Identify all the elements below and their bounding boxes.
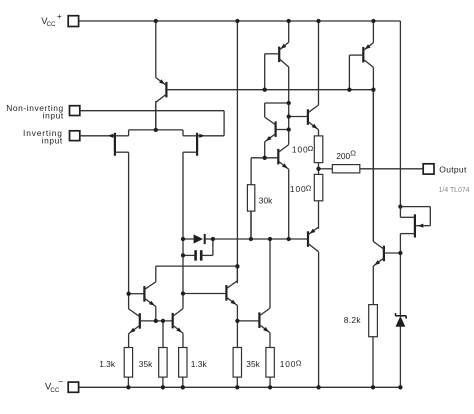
svg-text:Ω: Ω xyxy=(296,359,302,368)
svg-text:1/4 TL074: 1/4 TL074 xyxy=(439,187,470,194)
svg-text:35k: 35k xyxy=(139,359,153,369)
svg-text:30k: 30k xyxy=(259,195,273,205)
svg-text:input: input xyxy=(43,110,64,120)
svg-text:input: input xyxy=(42,135,63,145)
svg-text:1.3k: 1.3k xyxy=(191,359,208,369)
svg-text:100: 100 xyxy=(280,359,296,369)
svg-text:CC: CC xyxy=(50,387,59,394)
svg-text:Ω: Ω xyxy=(350,148,356,157)
svg-text:35k: 35k xyxy=(246,359,260,369)
svg-text:200: 200 xyxy=(336,151,350,161)
svg-text:−: − xyxy=(58,377,63,387)
svg-text:8.2k: 8.2k xyxy=(344,315,362,325)
svg-text:+: + xyxy=(57,11,62,21)
svg-text:Ω: Ω xyxy=(308,144,314,153)
svg-text:100: 100 xyxy=(292,145,309,155)
svg-text:1.3k: 1.3k xyxy=(99,359,116,369)
svg-text:Ω: Ω xyxy=(306,184,312,193)
svg-text:Output: Output xyxy=(439,165,467,175)
svg-text:CC: CC xyxy=(47,21,56,28)
svg-text:100: 100 xyxy=(290,184,307,194)
